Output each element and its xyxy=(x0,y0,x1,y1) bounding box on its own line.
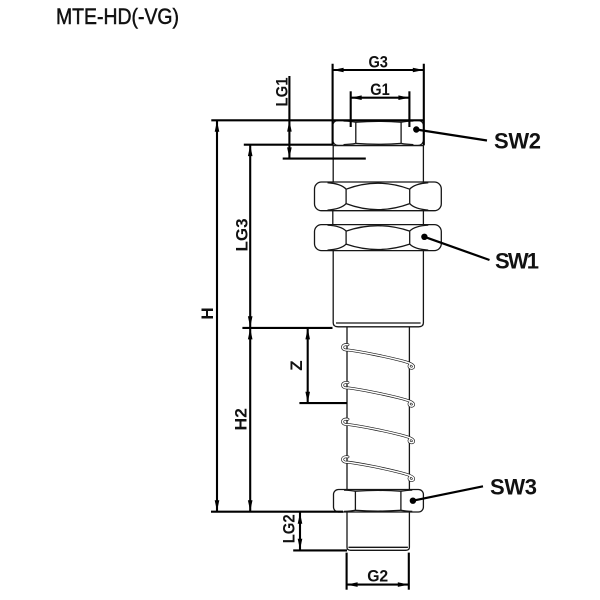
hex nut SW1 xyxy=(315,225,442,251)
G2 arrow left xyxy=(347,582,358,587)
spring coil 1 xyxy=(343,345,414,369)
svg-text:LG1: LG1 xyxy=(272,78,291,107)
LG2 arrow up xyxy=(298,513,303,524)
leader dot SW1 xyxy=(421,234,427,240)
LG3 arrow up xyxy=(248,145,253,156)
Z bottom reference line xyxy=(299,402,347,404)
spring coil 3 xyxy=(343,419,414,443)
G2 extension line right xyxy=(408,553,410,590)
Z arrow up xyxy=(305,328,310,339)
H2 arrow up xyxy=(248,328,253,339)
H arrow down xyxy=(215,500,220,511)
svg-text:SW2: SW2 xyxy=(494,129,541,154)
hose barb tube xyxy=(347,327,409,550)
body section between locknuts xyxy=(333,211,424,225)
G3 extension line right xyxy=(423,64,425,146)
spring coil 2 xyxy=(343,382,414,406)
G3 extension line left xyxy=(332,64,334,146)
LG1 dimension line xyxy=(288,76,290,159)
leader dot SW3 xyxy=(410,498,416,504)
LG2 bottom reference line xyxy=(293,549,347,551)
G2 arrow right xyxy=(398,582,409,587)
top face extension line (H/LG1 top) xyxy=(211,119,423,121)
svg-text:MTE-HD(-VG): MTE-HD(-VG) xyxy=(56,4,179,29)
G2 extension line left xyxy=(346,553,348,590)
Z arrow down xyxy=(305,392,310,403)
G1 arrow right xyxy=(398,95,409,100)
G2 dimension line xyxy=(347,584,409,586)
hex nut SW2 (top) xyxy=(333,120,424,145)
svg-text:SW1: SW1 xyxy=(495,249,539,274)
body section upper (between SW2 nut and locknuts) xyxy=(333,145,423,182)
LG1 bottom reference line xyxy=(283,158,366,160)
LG2 arrow down xyxy=(298,539,303,550)
title MTE-HD(-VG) xyxy=(56,4,179,29)
svg-text:G2: G2 xyxy=(367,566,388,585)
G3 dimension line xyxy=(333,69,424,71)
hex nut SW3 (bottom) xyxy=(334,490,424,513)
svg-text:SW3: SW3 xyxy=(490,475,537,500)
svg-text:G1: G1 xyxy=(370,80,390,99)
LG3 arrow down xyxy=(248,316,253,327)
G1 dimension line xyxy=(351,97,410,99)
Z dimension line xyxy=(307,328,309,403)
LG3 top reference line xyxy=(244,144,333,146)
svg-text:LG2: LG2 xyxy=(279,514,298,543)
leader line SW1 xyxy=(424,237,489,260)
LG2 dimension line xyxy=(299,512,301,550)
body section lower (between SW1 nut and step) xyxy=(333,251,423,327)
svg-text:Z: Z xyxy=(287,360,306,370)
svg-text:H: H xyxy=(198,307,217,319)
LG3 / H2 dimension line xyxy=(249,145,251,512)
H2 arrow down xyxy=(248,500,253,511)
leader line SW2 xyxy=(416,130,487,141)
leader dot SW2 xyxy=(413,126,419,132)
G3 arrow left xyxy=(333,68,344,73)
H dimension line xyxy=(216,120,218,511)
G1 extension line left xyxy=(350,91,352,127)
LG1 arrow down xyxy=(287,147,292,158)
G3 arrow right xyxy=(413,68,424,73)
hex locknut upper xyxy=(315,182,442,211)
LG1 arrow up xyxy=(287,121,292,132)
step reference line (LG3 bottom / H2 top / Z top) xyxy=(242,327,332,329)
H arrow up xyxy=(215,121,220,132)
svg-text:H2: H2 xyxy=(232,408,251,431)
spring coil 4 xyxy=(343,457,414,481)
dimension graphics (thick) xyxy=(211,64,424,590)
G1 extension line right xyxy=(408,91,410,127)
G1 arrow left xyxy=(351,95,362,100)
svg-text:G3: G3 xyxy=(368,52,388,71)
leader line SW3 xyxy=(413,486,483,500)
svg-text:LG3: LG3 xyxy=(232,219,251,252)
bottom face extension line (H/H2 bottom) xyxy=(211,511,343,513)
